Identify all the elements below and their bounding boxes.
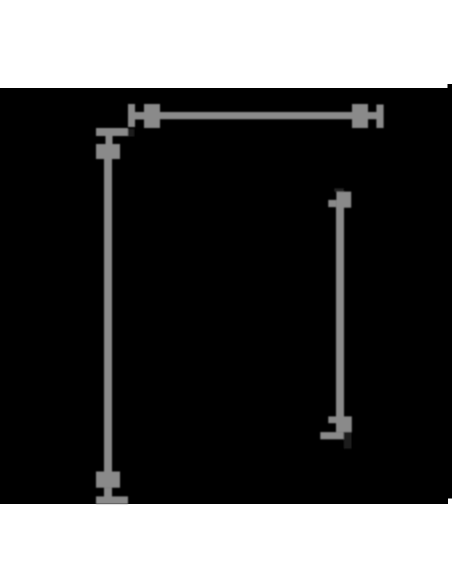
node A top horizontal bar: [96, 128, 128, 136]
scrollbar bottom white notch: [448, 499, 452, 505]
capacitor C1 connector: [135, 112, 144, 120]
wire W1 (left vertical): [104, 158, 112, 472]
capacitor C1 right plate block: [144, 104, 160, 128]
junction node A: [96, 144, 120, 159]
node A stub: [106, 135, 113, 145]
capacitor C2 connector: [368, 112, 377, 119]
capacitor C2 right plate: [376, 105, 383, 129]
ground stub: [104, 488, 112, 497]
wire W3 (right vertical): [336, 207, 344, 417]
scrollbar column top tab: [448, 84, 452, 89]
wire W3 lower segment through node C: [336, 416, 344, 432]
schematic canvas (dark editor background): [0, 88, 452, 504]
capacitor C1 left plate: [128, 104, 135, 127]
dark artifact near capacitor C1: [128, 129, 134, 137]
wire W2 (top horizontal): [160, 112, 352, 119]
ground bar: [96, 496, 128, 504]
dark artifact near node C: [344, 432, 352, 449]
node C left pin tab: [328, 416, 336, 423]
dark artifact near node B: [334, 188, 343, 191]
junction node B: [336, 192, 351, 208]
junction node D (bottom-left): [96, 472, 120, 488]
capacitor C2 left plate block: [352, 104, 368, 128]
node B left pin tab: [328, 200, 336, 207]
junction node C block: [344, 416, 352, 432]
wire W4 (bottom horizontal stub): [320, 432, 344, 439]
